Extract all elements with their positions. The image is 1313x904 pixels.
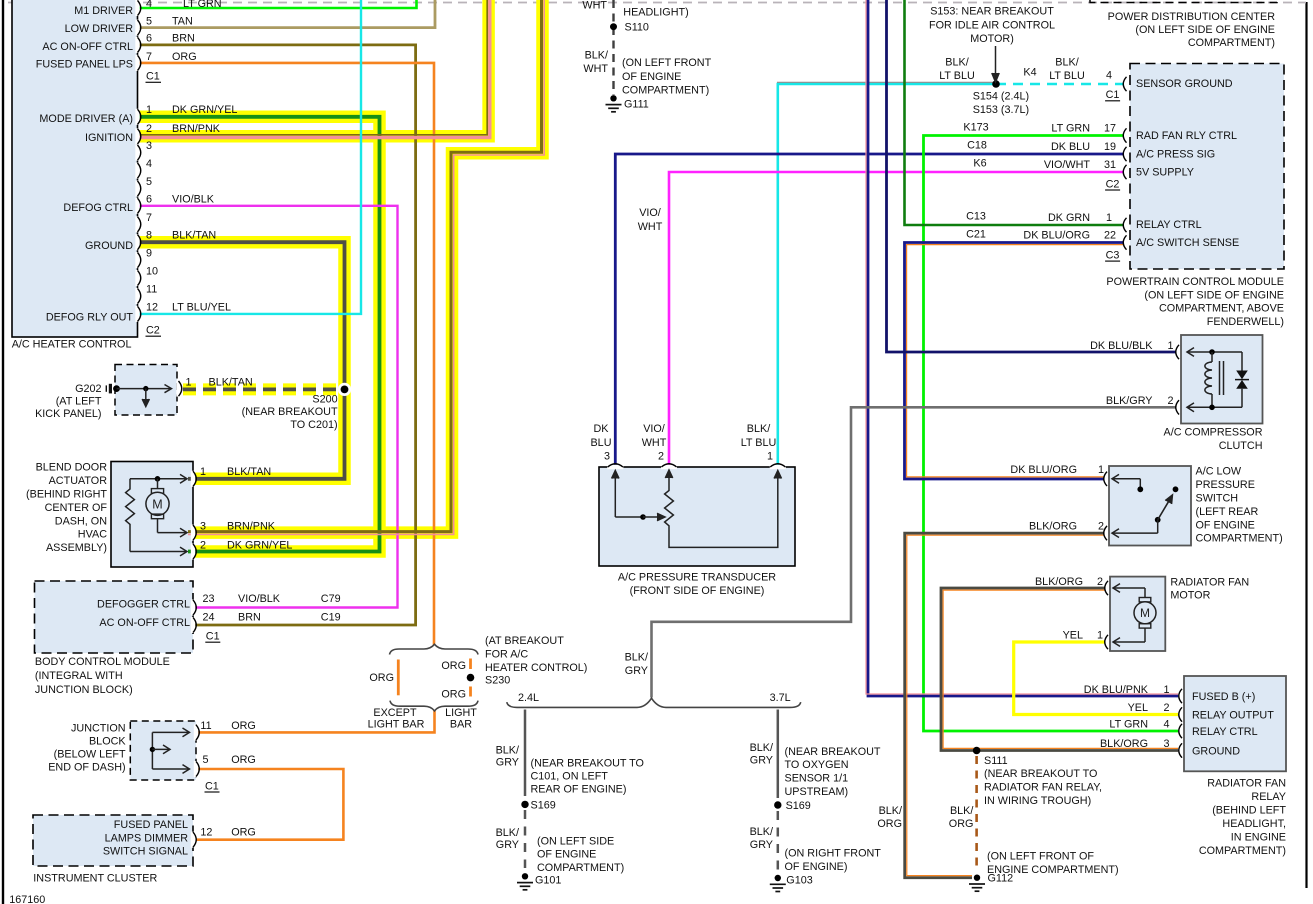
svg-text:S153: NEAR BREAKOUT: S153: NEAR BREAKOUT bbox=[930, 6, 1054, 18]
svg-text:8: 8 bbox=[146, 230, 152, 242]
wire BLK/ORG radiator fan motor pin2 through S111 to relay pin3 bbox=[941, 588, 1178, 751]
svg-text:DK BLU: DK BLU bbox=[1051, 141, 1090, 153]
svg-text:(BEHIND LEFT: (BEHIND LEFT bbox=[1212, 804, 1286, 816]
svg-text:ASSEMBLY): ASSEMBLY) bbox=[46, 542, 107, 554]
wire BLK/GRY dashed S169 to G103 bbox=[777, 811, 780, 871]
svg-text:G202: G202 bbox=[75, 383, 101, 395]
wire BRN/PNK from top to blend door pin3 bbox=[188, 0, 542, 532]
svg-text:AC ON-OFF CTRL: AC ON-OFF CTRL bbox=[42, 41, 133, 53]
svg-text:TO OXYGEN: TO OXYGEN bbox=[785, 759, 849, 771]
svg-text:A/C PRESSURE TRANSDUCER: A/C PRESSURE TRANSDUCER bbox=[618, 572, 776, 584]
svg-text:2: 2 bbox=[1098, 521, 1104, 533]
svg-text:BLK/: BLK/ bbox=[950, 805, 973, 817]
brace ORG merge to junction block pin11 bbox=[390, 701, 478, 711]
svg-text:A/C PRESS SIG: A/C PRESS SIG bbox=[1136, 149, 1215, 161]
body control module box bbox=[35, 581, 194, 653]
G202 breakout box bbox=[115, 365, 177, 416]
svg-text:S111: S111 bbox=[984, 755, 1008, 767]
svg-text:POWER DISTRIBUTION CENTER: POWER DISTRIBUTION CENTER bbox=[1108, 11, 1276, 23]
wire BLK/TAN pin8 to blend door pin1 bbox=[137, 242, 345, 479]
svg-text:DASH, ON: DASH, ON bbox=[55, 515, 107, 527]
svg-text:1: 1 bbox=[146, 104, 152, 116]
svg-text:(ON LEFT FRONT: (ON LEFT FRONT bbox=[622, 57, 712, 69]
svg-text:(ON LEFT FRONT OF: (ON LEFT FRONT OF bbox=[987, 851, 1094, 863]
radiator fan motor pins bbox=[1105, 581, 1108, 595]
svg-text:6: 6 bbox=[146, 33, 152, 45]
svg-text:(INTEGRAL WITH: (INTEGRAL WITH bbox=[35, 670, 123, 682]
arrow from S153 note to splice bbox=[995, 46, 997, 75]
svg-text:12: 12 bbox=[146, 301, 158, 313]
svg-text:GRY: GRY bbox=[750, 755, 773, 767]
G202 box pin 1 bbox=[176, 381, 180, 397]
svg-text:OF ENGINE): OF ENGINE) bbox=[785, 861, 848, 873]
svg-text:1: 1 bbox=[186, 376, 192, 388]
svg-text:BODY CONTROL MODULE: BODY CONTROL MODULE bbox=[35, 656, 170, 668]
svg-text:7: 7 bbox=[146, 51, 152, 63]
svg-text:DEFOGGER CTRL: DEFOGGER CTRL bbox=[97, 599, 190, 611]
svg-text:C2: C2 bbox=[1106, 178, 1120, 190]
junction block box bbox=[130, 721, 196, 780]
svg-text:RELAY CTRL: RELAY CTRL bbox=[1192, 726, 1258, 738]
svg-text:(NEAR BREAKOUT TO: (NEAR BREAKOUT TO bbox=[984, 768, 1097, 780]
svg-text:KICK PANEL): KICK PANEL) bbox=[35, 408, 101, 420]
wire highlight band BLK/TAN bbox=[137, 242, 345, 479]
svg-text:OF ENGINE: OF ENGINE bbox=[537, 849, 596, 861]
junction block pins 11/5 bbox=[194, 724, 198, 740]
wire TAN pin5 (cut at top) bbox=[137, 0, 435, 28]
svg-text:DEFOG CTRL: DEFOG CTRL bbox=[63, 202, 133, 214]
svg-text:VIO/BLK: VIO/BLK bbox=[238, 593, 281, 605]
wire highlight band BLK/TAN dashed G202-S200 bbox=[183, 383, 349, 395]
svg-text:ORG: ORG bbox=[369, 672, 394, 684]
svg-text:4: 4 bbox=[1106, 70, 1112, 82]
wire DK BLU/BLK from top to compressor clutch pin1 bbox=[887, 0, 1177, 352]
svg-text:1: 1 bbox=[1097, 630, 1103, 642]
svg-text:BLEND DOOR: BLEND DOOR bbox=[36, 462, 108, 474]
svg-text:COMPARTMENT, ABOVE: COMPARTMENT, ABOVE bbox=[1159, 303, 1284, 315]
svg-text:DK GRN: DK GRN bbox=[1048, 212, 1090, 224]
svg-text:HEATER CONTROL): HEATER CONTROL) bbox=[485, 662, 587, 674]
PCM pins bbox=[1123, 77, 1126, 91]
svg-text:SWITCH SIGNAL: SWITCH SIGNAL bbox=[103, 846, 188, 858]
svg-text:C18: C18 bbox=[967, 139, 987, 151]
svg-text:SENSOR GROUND: SENSOR GROUND bbox=[1136, 78, 1233, 90]
svg-text:G101: G101 bbox=[535, 875, 561, 887]
svg-text:CENTER OF: CENTER OF bbox=[45, 502, 108, 514]
svg-text:S169: S169 bbox=[531, 799, 556, 811]
svg-text:COMPARTMENT): COMPARTMENT) bbox=[1199, 845, 1286, 857]
svg-text:WHT: WHT bbox=[638, 221, 663, 233]
wire DK GRN PCM pin1 from top bbox=[905, 0, 1125, 225]
svg-text:167160: 167160 bbox=[9, 894, 45, 904]
wire DK BLU/ORG PCM pin22 to low pressure switch pin1 bbox=[905, 243, 1125, 480]
svg-text:A/C SWITCH SENSE: A/C SWITCH SENSE bbox=[1136, 237, 1239, 249]
svg-text:FENDERWELL): FENDERWELL) bbox=[1207, 316, 1284, 328]
wire DK GRN/YEL pin1 to blend door pin2 bbox=[137, 117, 380, 552]
svg-text:BLK/: BLK/ bbox=[750, 742, 773, 754]
svg-text:C2: C2 bbox=[146, 325, 160, 337]
svg-text:RADIATOR FAN: RADIATOR FAN bbox=[1170, 576, 1249, 588]
svg-text:BLK/ORG: BLK/ORG bbox=[1035, 576, 1083, 588]
svg-text:LT GRN: LT GRN bbox=[1109, 719, 1148, 731]
svg-text:GRY: GRY bbox=[496, 839, 519, 851]
svg-text:GROUND: GROUND bbox=[1192, 746, 1240, 758]
svg-text:(BEHIND RIGHT: (BEHIND RIGHT bbox=[26, 489, 107, 501]
svg-text:5V SUPPLY: 5V SUPPLY bbox=[1136, 167, 1194, 179]
svg-text:FUSED B (+): FUSED B (+) bbox=[1192, 691, 1255, 703]
svg-text:LOW DRIVER: LOW DRIVER bbox=[65, 23, 134, 35]
transducer pin3 arrow bbox=[614, 475, 616, 517]
svg-text:BLK/TAN: BLK/TAN bbox=[172, 230, 216, 242]
wire BLK/WHT dashed from top through S110 to G111 bbox=[612, 0, 614, 95]
svg-text:(FRONT SIDE OF ENGINE): (FRONT SIDE OF ENGINE) bbox=[630, 585, 765, 597]
svg-text:5: 5 bbox=[146, 15, 152, 27]
ground G101 bbox=[522, 873, 528, 879]
wire ORG pin7 to brace bbox=[137, 63, 434, 645]
svg-text:K173: K173 bbox=[963, 121, 988, 133]
svg-text:UPSTREAM): UPSTREAM) bbox=[785, 786, 849, 798]
svg-text:IN WIRING TROUGH): IN WIRING TROUGH) bbox=[984, 795, 1091, 807]
wire ORG junction block pin5 to instrument cluster pin12 bbox=[196, 769, 343, 840]
svg-text:INSTRUMENT CLUSTER: INSTRUMENT CLUSTER bbox=[33, 873, 157, 885]
svg-text:CLUTCH: CLUTCH bbox=[1219, 440, 1263, 452]
svg-text:PRESSURE: PRESSURE bbox=[1196, 479, 1255, 491]
svg-text:SWITCH: SWITCH bbox=[1196, 493, 1239, 505]
svg-text:23: 23 bbox=[203, 593, 215, 605]
svg-text:VIO/BLK: VIO/BLK bbox=[172, 193, 215, 205]
svg-text:17: 17 bbox=[1104, 123, 1116, 135]
svg-text:BLK/ORG: BLK/ORG bbox=[1029, 521, 1077, 533]
wire ORG except-light-bar branch bbox=[397, 660, 400, 696]
svg-text:DK: DK bbox=[594, 423, 610, 435]
splice S154/S153 bbox=[992, 80, 1000, 88]
blend door feedback resistor bbox=[126, 479, 135, 552]
G202 internal wire with branch arrow bbox=[117, 388, 172, 390]
svg-text:FUSED PANEL: FUSED PANEL bbox=[114, 819, 188, 831]
svg-text:COMPARTMENT): COMPARTMENT) bbox=[1196, 533, 1283, 545]
svg-text:C1: C1 bbox=[205, 780, 219, 792]
svg-text:BRN/PNK: BRN/PNK bbox=[227, 521, 276, 533]
svg-text:2: 2 bbox=[1097, 576, 1103, 588]
svg-text:C1: C1 bbox=[146, 71, 160, 83]
svg-text:TAN: TAN bbox=[172, 15, 193, 27]
svg-text:AC ON-OFF CTRL: AC ON-OFF CTRL bbox=[99, 617, 190, 629]
svg-text:VIO/WHT: VIO/WHT bbox=[1044, 159, 1091, 171]
svg-text:END OF DASH): END OF DASH) bbox=[48, 762, 125, 774]
splice S110 bbox=[610, 23, 617, 30]
svg-text:K4: K4 bbox=[1023, 67, 1036, 79]
blend door actuator box bbox=[111, 462, 193, 568]
svg-text:C3: C3 bbox=[1106, 249, 1120, 261]
wire BLK/ORG dashed S111 to G112 bbox=[975, 756, 978, 869]
svg-text:19: 19 bbox=[1104, 141, 1116, 153]
svg-text:M: M bbox=[1140, 606, 1150, 620]
svg-text:DK BLU/ORG: DK BLU/ORG bbox=[1023, 230, 1090, 242]
powertrain control module box bbox=[1130, 64, 1284, 270]
svg-text:ORG: ORG bbox=[877, 818, 902, 830]
brace 2.4L/3.7L split bbox=[507, 698, 801, 707]
junction block internal bus bbox=[151, 732, 153, 769]
svg-text:6: 6 bbox=[146, 193, 152, 205]
wire ORG dashed light-bar branch through S230 bbox=[469, 659, 472, 670]
diagram frame right border bbox=[1305, 2, 1307, 888]
svg-text:10: 10 bbox=[146, 266, 158, 278]
instrument cluster box bbox=[33, 815, 193, 866]
svg-text:YEL: YEL bbox=[1063, 630, 1083, 642]
svg-text:A/C COMPRESSOR: A/C COMPRESSOR bbox=[1164, 427, 1263, 439]
svg-text:LT BLU: LT BLU bbox=[1049, 70, 1085, 82]
svg-text:2: 2 bbox=[1168, 395, 1174, 407]
svg-text:IN ENGINE: IN ENGINE bbox=[1231, 831, 1286, 843]
radiator fan motor M2 bbox=[1113, 587, 1145, 589]
svg-text:ORG: ORG bbox=[441, 689, 466, 701]
svg-text:G103: G103 bbox=[786, 874, 812, 886]
svg-text:9: 9 bbox=[146, 248, 152, 260]
svg-text:DEFOG RLY OUT: DEFOG RLY OUT bbox=[46, 312, 134, 324]
svg-text:1: 1 bbox=[1098, 464, 1104, 476]
svg-text:5: 5 bbox=[146, 176, 152, 188]
svg-text:COMPARTMENT): COMPARTMENT) bbox=[1188, 37, 1275, 49]
splice S169 2.4L bbox=[521, 801, 528, 808]
ground G112 bbox=[974, 875, 980, 881]
svg-text:LT BLU/YEL: LT BLU/YEL bbox=[172, 301, 231, 313]
svg-text:RAD FAN RLY CTRL: RAD FAN RLY CTRL bbox=[1136, 130, 1237, 142]
svg-text:M1 DRIVER: M1 DRIVER bbox=[74, 5, 133, 17]
A/C heater control box bbox=[12, 0, 138, 337]
svg-text:BLK/: BLK/ bbox=[496, 744, 519, 756]
svg-text:GRY: GRY bbox=[750, 839, 773, 851]
svg-text:GRY: GRY bbox=[496, 756, 519, 768]
wire BLK/ORG low pressure switch pin2 to G112 bbox=[905, 533, 1104, 878]
svg-text:LT GRN: LT GRN bbox=[1051, 123, 1090, 135]
svg-text:4: 4 bbox=[146, 158, 152, 170]
svg-text:JUNCTION: JUNCTION bbox=[71, 722, 126, 734]
blend door motor M1 bbox=[130, 478, 187, 480]
svg-text:RADIATOR FAN RELAY,: RADIATOR FAN RELAY, bbox=[984, 782, 1102, 794]
svg-text:C13: C13 bbox=[966, 211, 986, 223]
svg-text:2: 2 bbox=[146, 123, 152, 135]
wire VIO/BLK pin6 to BCM pin23 bbox=[137, 206, 398, 608]
BCM pins 23/24 bbox=[191, 600, 195, 616]
svg-text:BLK/: BLK/ bbox=[879, 805, 902, 817]
svg-text:22: 22 bbox=[1104, 230, 1116, 242]
svg-text:POWERTRAIN CONTROL MODULE: POWERTRAIN CONTROL MODULE bbox=[1106, 276, 1284, 288]
svg-text:M: M bbox=[152, 497, 162, 511]
svg-text:ORG: ORG bbox=[231, 827, 256, 839]
clutch pins bbox=[1176, 345, 1179, 359]
svg-text:LIGHT BAR: LIGHT BAR bbox=[368, 719, 425, 731]
svg-text:WHT: WHT bbox=[582, 0, 607, 12]
A/C low pressure switch box bbox=[1109, 466, 1191, 546]
svg-text:GROUND: GROUND bbox=[85, 240, 133, 252]
svg-text:BRN: BRN bbox=[172, 33, 195, 45]
svg-text:C21: C21 bbox=[966, 229, 986, 241]
diagram frame top dashed border bbox=[8, 2, 1306, 4]
svg-text:(LEFT REAR: (LEFT REAR bbox=[1196, 506, 1259, 518]
svg-text:DK BLU/PNK: DK BLU/PNK bbox=[1084, 684, 1149, 696]
svg-text:BLK/: BLK/ bbox=[496, 827, 519, 839]
wire DK BLU PCM pin19 to transducer pin3 bbox=[615, 154, 1124, 467]
svg-text:RELAY: RELAY bbox=[1251, 791, 1286, 803]
svg-text:BLK/: BLK/ bbox=[747, 423, 770, 435]
svg-text:LT GRN: LT GRN bbox=[183, 0, 222, 10]
wire BLK/GRY dashed S169 to G101 bbox=[524, 810, 527, 868]
G202 ground terminal symbol bbox=[105, 385, 107, 391]
svg-text:OF ENGINE: OF ENGINE bbox=[622, 71, 681, 83]
svg-text:WHT: WHT bbox=[642, 437, 667, 449]
splice S111 bbox=[973, 747, 981, 755]
wire LT GRN pin4 A/C heater (cut at top) bbox=[137, 0, 417, 8]
svg-text:EXCEPT: EXCEPT bbox=[373, 707, 417, 719]
svg-text:MOTOR: MOTOR bbox=[1170, 590, 1210, 602]
svg-text:HEADLIGHT,: HEADLIGHT, bbox=[1222, 818, 1286, 830]
svg-text:ORG: ORG bbox=[172, 51, 197, 63]
svg-text:(NEAR BREAKOUT: (NEAR BREAKOUT bbox=[242, 406, 338, 418]
transducer wiper arrow bbox=[643, 516, 659, 518]
svg-text:(BELOW LEFT: (BELOW LEFT bbox=[54, 749, 126, 761]
A/C compressor clutch box bbox=[1181, 335, 1263, 424]
svg-text:C19: C19 bbox=[321, 612, 341, 624]
wire BRN/PNK ignition pin2 (cut at top) bbox=[137, 0, 487, 135]
svg-text:ORG: ORG bbox=[949, 818, 974, 830]
instrument cluster pin 12 bbox=[191, 832, 195, 848]
svg-text:FOR IDLE AIR CONTROL: FOR IDLE AIR CONTROL bbox=[929, 20, 1055, 32]
svg-text:OF ENGINE: OF ENGINE bbox=[1196, 519, 1255, 531]
svg-text:1: 1 bbox=[1164, 684, 1170, 696]
svg-text:A/C LOW: A/C LOW bbox=[1196, 466, 1242, 478]
svg-text:BLU: BLU bbox=[590, 437, 611, 449]
splice S230 bbox=[467, 674, 475, 682]
svg-text:1: 1 bbox=[200, 466, 206, 478]
svg-text:GRY: GRY bbox=[625, 665, 648, 677]
radiator fan relay pins bbox=[1179, 689, 1182, 703]
svg-text:LAMPS DIMMER: LAMPS DIMMER bbox=[105, 832, 189, 844]
svg-text:COMPARTMENT): COMPARTMENT) bbox=[622, 85, 709, 97]
transducer pins 3/2/1 bbox=[607, 465, 623, 469]
low pressure switch contacts bbox=[1112, 478, 1140, 480]
svg-text:3: 3 bbox=[1164, 738, 1170, 750]
wire DK BLU/PNK from top to radiator fan relay pin1 bbox=[868, 0, 1178, 696]
svg-text:LIGHT: LIGHT bbox=[445, 707, 477, 719]
svg-text:HEADLIGHT): HEADLIGHT) bbox=[623, 7, 688, 19]
svg-text:(NEAR BREAKOUT: (NEAR BREAKOUT bbox=[785, 746, 881, 758]
diagram frame left border bbox=[2, 0, 4, 904]
clutch coil and diode bbox=[1187, 351, 1242, 353]
wire highlight band BRN/PNK blend door bbox=[188, 0, 543, 533]
A/C heater control connector pins bbox=[135, 0, 139, 16]
radiator fan relay box bbox=[1184, 676, 1286, 771]
svg-text:ORG: ORG bbox=[441, 660, 466, 672]
svg-text:JUNCTION BLOCK): JUNCTION BLOCK) bbox=[35, 684, 133, 696]
svg-text:3: 3 bbox=[200, 521, 206, 533]
svg-text:BLOCK: BLOCK bbox=[89, 735, 126, 747]
power distribution center box (cut off at top) bbox=[1090, 0, 1277, 3]
svg-text:BRN/PNK: BRN/PNK bbox=[172, 123, 221, 135]
svg-text:BLK/: BLK/ bbox=[750, 826, 773, 838]
svg-text:4: 4 bbox=[146, 0, 152, 10]
svg-text:1: 1 bbox=[1106, 212, 1112, 224]
wire BLK/GRY clutch pin2 to 2.4L/3.7L brace bbox=[652, 407, 1177, 697]
wire VIO/WHT PCM pin31 to transducer pin2 bbox=[669, 172, 1124, 467]
svg-text:BLK/: BLK/ bbox=[625, 652, 648, 664]
svg-text:S200: S200 bbox=[312, 394, 337, 406]
svg-text:2: 2 bbox=[1164, 702, 1170, 714]
svg-text:COMPARTMENT): COMPARTMENT) bbox=[537, 862, 624, 874]
svg-text:REAR OF ENGINE): REAR OF ENGINE) bbox=[531, 784, 627, 796]
splice S169 3.7L bbox=[774, 801, 781, 808]
svg-text:24: 24 bbox=[203, 612, 215, 624]
svg-text:G112: G112 bbox=[988, 873, 1014, 885]
svg-text:TO C201): TO C201) bbox=[290, 419, 337, 431]
svg-text:S230: S230 bbox=[485, 675, 510, 687]
svg-text:BLK/ORG: BLK/ORG bbox=[1100, 738, 1148, 750]
wire YEL radiator fan motor pin1 to relay pin2 bbox=[1014, 642, 1178, 715]
svg-text:C1: C1 bbox=[1106, 89, 1120, 101]
svg-text:12: 12 bbox=[200, 827, 212, 839]
svg-text:S110: S110 bbox=[625, 22, 649, 34]
radiator fan motor box bbox=[1110, 577, 1165, 651]
svg-text:1: 1 bbox=[1168, 340, 1174, 352]
svg-text:3.7L: 3.7L bbox=[770, 692, 791, 704]
svg-text:3: 3 bbox=[604, 451, 610, 463]
blend door actuator pins bbox=[191, 471, 195, 487]
svg-text:2: 2 bbox=[658, 451, 664, 463]
svg-text:C79: C79 bbox=[321, 593, 341, 605]
low pressure switch pins bbox=[1104, 472, 1107, 486]
svg-text:DK GRN/YEL: DK GRN/YEL bbox=[172, 104, 237, 116]
svg-text:(ON LEFT SIDE OF ENGINE: (ON LEFT SIDE OF ENGINE bbox=[1135, 24, 1275, 36]
svg-text:A/C HEATER CONTROL: A/C HEATER CONTROL bbox=[12, 339, 132, 351]
svg-text:WHT: WHT bbox=[583, 63, 608, 75]
svg-text:BLK/: BLK/ bbox=[585, 50, 608, 62]
svg-text:7: 7 bbox=[146, 212, 152, 224]
wire highlight band DK GRN/YEL bbox=[137, 117, 380, 552]
svg-text:RADIATOR FAN: RADIATOR FAN bbox=[1207, 777, 1286, 789]
wire BRN pin6 to BCM pin24 bbox=[137, 45, 416, 625]
A/C pressure transducer box bbox=[599, 467, 795, 566]
svg-text:MOTOR): MOTOR) bbox=[970, 33, 1014, 45]
svg-text:11: 11 bbox=[146, 284, 157, 296]
svg-text:1: 1 bbox=[767, 451, 773, 463]
svg-text:SENSOR 1/1: SENSOR 1/1 bbox=[785, 773, 849, 785]
svg-text:S154 (2.4L): S154 (2.4L) bbox=[973, 91, 1029, 103]
svg-text:DK BLU/BLK: DK BLU/BLK bbox=[1090, 340, 1153, 352]
svg-text:BRN: BRN bbox=[238, 612, 261, 624]
svg-text:BLK/: BLK/ bbox=[945, 57, 968, 69]
transducer resistor bbox=[665, 475, 778, 548]
svg-text:BLK/TAN: BLK/TAN bbox=[209, 376, 253, 388]
wire BLK/GRY 3.7L branch to S169 bbox=[777, 710, 780, 799]
wire BLK/GRY 2.4L branch to S169 bbox=[524, 710, 527, 797]
svg-text:C1: C1 bbox=[206, 631, 220, 643]
svg-text:3: 3 bbox=[146, 140, 152, 152]
wire LT BLU/YEL pin12 (cut at top) bbox=[137, 0, 361, 314]
svg-text:ORG: ORG bbox=[231, 720, 256, 732]
svg-text:DK GRN/YEL: DK GRN/YEL bbox=[227, 539, 292, 551]
svg-text:VIO/: VIO/ bbox=[643, 423, 665, 435]
svg-text:MODE DRIVER (A): MODE DRIVER (A) bbox=[39, 113, 133, 125]
splice S200 bbox=[338, 383, 351, 396]
svg-text:C101, ON LEFT: C101, ON LEFT bbox=[531, 771, 609, 783]
svg-text:11: 11 bbox=[200, 720, 211, 732]
ground G103 bbox=[775, 875, 781, 881]
svg-text:S153 (3.7L): S153 (3.7L) bbox=[973, 104, 1029, 116]
svg-text:K6: K6 bbox=[973, 157, 986, 169]
svg-text:DK BLU/ORG: DK BLU/ORG bbox=[1010, 464, 1077, 476]
svg-text:HVAC: HVAC bbox=[78, 529, 107, 541]
svg-text:2.4L: 2.4L bbox=[518, 692, 539, 704]
svg-text:(ON LEFT SIDE OF ENGINE: (ON LEFT SIDE OF ENGINE bbox=[1144, 289, 1284, 301]
